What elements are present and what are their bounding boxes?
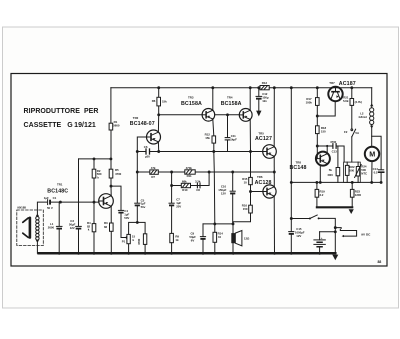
resistor R18 150 xyxy=(316,116,327,146)
svg-text:BC158A: BC158A xyxy=(181,101,202,107)
transistor TR6 AC128 xyxy=(255,175,277,198)
svg-text:R6: R6 xyxy=(152,99,156,103)
wire TR3 to TR4 base xyxy=(215,114,240,116)
label C9 50uF 6V xyxy=(189,231,196,242)
capacitor C15 1000uF 12V xyxy=(289,227,305,253)
resistor R15 (bias) xyxy=(242,177,252,185)
wire coupling row y=151.5 xyxy=(137,151,145,153)
resistor R22 500 xyxy=(345,162,355,182)
transistor TR8 BC148 (bold) xyxy=(290,152,330,171)
wire speaker row y=223.9 xyxy=(203,223,233,225)
svg-text:R11: R11 xyxy=(187,174,192,178)
svg-text:BC158A: BC158A xyxy=(221,101,242,107)
wire motor to rail xyxy=(371,161,373,182)
svg-text:(4.7k): (4.7k) xyxy=(355,100,362,104)
resistor R20 5k xyxy=(328,146,340,182)
ground arrow under R23 xyxy=(349,209,354,214)
svg-text:90/188: 90/188 xyxy=(17,205,26,209)
resistor R10 68k xyxy=(181,180,190,192)
svg-text:5k: 5k xyxy=(329,168,333,172)
wire head coil top to base row xyxy=(37,202,46,214)
node dots on top bus xyxy=(157,86,353,89)
wire C5 column x=137.3 xyxy=(136,152,138,204)
wire switch feed from C15 node xyxy=(291,218,310,220)
svg-text:AC187: AC187 xyxy=(339,81,356,87)
svg-text:9V DC: 9V DC xyxy=(361,232,371,236)
capacitor C5 1uF 50v xyxy=(135,198,146,222)
inductor L2 motor choke xyxy=(358,88,374,147)
capacitor C3 50uF 12V xyxy=(69,159,81,253)
svg-text:15k: 15k xyxy=(162,99,167,103)
wire output column x=214.3 xyxy=(214,152,215,224)
capacitor C13 4700 xyxy=(330,140,337,153)
svg-text:4.8mH: 4.8mH xyxy=(358,115,366,119)
wire BC148 collector to C13 row xyxy=(326,146,328,154)
capacitor C11 1kpF xyxy=(225,115,237,152)
svg-text:TR7: TR7 xyxy=(329,81,335,85)
wire head coil bottom to ground bus xyxy=(37,243,38,254)
wire TR2 base to C5 column xyxy=(137,137,146,152)
svg-text:BC148C: BC148C xyxy=(47,188,68,194)
svg-text:P1: P1 xyxy=(122,240,126,244)
svg-text:R10: R10 xyxy=(182,188,188,192)
resistor R14 xyxy=(213,224,223,253)
node A (C1/C2 junction) xyxy=(59,201,62,204)
wire TR2 collector to TR3 base xyxy=(159,114,203,116)
svg-text:R13: R13 xyxy=(262,81,268,85)
svg-text:TR3: TR3 xyxy=(188,96,194,100)
svg-text:50v: 50v xyxy=(141,205,146,209)
wire C1 to TR1 base xyxy=(51,201,99,203)
wire C13 row y=146 xyxy=(317,145,332,147)
svg-text:CASSETTE G 19/121: CASSETTE G 19/121 xyxy=(24,122,96,129)
wire bottom ground bus xyxy=(39,252,336,255)
motor M (bold) xyxy=(365,147,379,161)
capacitor C8 3.3k (series) xyxy=(195,180,201,193)
potentiometer P1 box xyxy=(122,221,147,253)
svg-text:25V: 25V xyxy=(176,204,181,208)
svg-text:0.1: 0.1 xyxy=(374,170,378,174)
resistor R17 100k xyxy=(306,88,320,116)
capacitor C6 (series in row) xyxy=(144,145,150,159)
svg-text:47k: 47k xyxy=(151,166,156,170)
thermistor R24 500 NTC xyxy=(355,162,368,182)
wire switch to jack column xyxy=(319,218,336,253)
wire row y=172 xyxy=(137,171,274,173)
capacitor C7 1uF 25V xyxy=(169,198,181,234)
capacitor C12 100uF (bus decoupling w/ arrow) xyxy=(256,88,269,117)
svg-text:M: M xyxy=(369,150,375,159)
resistor R5 4700 xyxy=(109,168,121,178)
node dots on bottom bus xyxy=(58,252,321,255)
wire AC127 emitter to AC128 collector xyxy=(273,156,275,187)
svg-text:1µF: 1µF xyxy=(44,196,49,200)
svg-text:12V: 12V xyxy=(70,226,75,230)
wire TR2 emitter down xyxy=(157,142,159,152)
wire AC128 emitter to ground bus xyxy=(273,196,275,253)
transistor TR1 BC148C xyxy=(47,183,113,209)
wire AC187 emitter to node xyxy=(317,101,335,116)
switch S1 xyxy=(309,215,320,220)
svg-text:TR1: TR1 xyxy=(57,183,63,187)
capacitor C10 150uF 12V xyxy=(218,172,235,224)
svg-text:4700: 4700 xyxy=(330,140,337,144)
svg-text:BC148-07: BC148-07 xyxy=(130,121,155,127)
battery 9V xyxy=(314,232,335,254)
wire TR1 collector chain x=111 xyxy=(110,130,112,196)
resistor R3 (TR1 emitter) xyxy=(104,206,113,253)
resistor R2 560k xyxy=(92,159,102,202)
svg-text:50V: 50V xyxy=(124,216,129,220)
transistor TR3 BC158A xyxy=(181,96,215,121)
svg-text:12V: 12V xyxy=(221,191,226,195)
svg-text:500: 500 xyxy=(349,169,354,173)
svg-text:3.3k: 3.3k xyxy=(195,180,201,184)
wire C7/R9 column x=171.6 xyxy=(171,172,173,203)
svg-text:150: 150 xyxy=(321,129,326,133)
wire 68k/C8 branch xyxy=(172,172,210,186)
capacitor C14 0.1 xyxy=(372,136,384,184)
svg-text:4700: 4700 xyxy=(115,172,122,176)
svg-text:R7: R7 xyxy=(151,175,155,179)
svg-text:TR4: TR4 xyxy=(227,96,233,100)
wire bold ground segment xyxy=(317,206,352,208)
wire TR3 top stub to bus xyxy=(212,88,214,111)
svg-text:C8: C8 xyxy=(196,188,200,192)
resistor R13 (series in top bus) xyxy=(260,81,269,90)
svg-text:AC128: AC128 xyxy=(255,180,272,186)
svg-text:NTC: NTC xyxy=(361,171,368,175)
box R22/NTC xyxy=(344,162,361,182)
svg-text:12Ω: 12Ω xyxy=(244,237,250,241)
wire AC127 collector to bus xyxy=(273,88,275,147)
resistor R4 82k xyxy=(87,202,96,253)
svg-text:C1: C1 xyxy=(53,196,57,200)
schematic border frame xyxy=(11,74,387,267)
inductor L1 head coil xyxy=(36,213,39,243)
capacitor C2 (to ground) xyxy=(48,202,62,253)
svg-text:5600: 5600 xyxy=(113,124,120,128)
fuse F2 5A xyxy=(344,105,360,162)
svg-text:4700: 4700 xyxy=(137,238,141,245)
capacitor C1 (series) xyxy=(44,196,57,210)
tape head symbol xyxy=(23,218,30,238)
jack 9V DC xyxy=(335,228,371,238)
tape head box (dashed) xyxy=(17,210,44,246)
svg-text:2.2: 2.2 xyxy=(320,193,324,197)
svg-text:C6: C6 xyxy=(144,145,148,149)
svg-text:88: 88 xyxy=(378,260,382,264)
svg-text:BC148: BC148 xyxy=(290,165,307,171)
svg-text:R20: R20 xyxy=(328,173,334,177)
wire R18 to BC148 base xyxy=(316,146,317,159)
wire top supply bus xyxy=(111,87,372,89)
svg-text:TR5: TR5 xyxy=(258,131,264,135)
wire R15 to AC128 base node xyxy=(251,185,263,192)
svg-text:1k: 1k xyxy=(175,238,179,242)
svg-text:TR8: TR8 xyxy=(296,160,302,164)
svg-text:15k: 15k xyxy=(205,136,210,140)
title text xyxy=(24,108,99,129)
capacitor C9 (electrolytic to ground) xyxy=(200,224,205,253)
svg-text:470k: 470k xyxy=(186,166,193,170)
transistor TR2 BC148-07 xyxy=(130,116,161,144)
svg-text:12V: 12V xyxy=(296,234,301,238)
svg-text:82: 82 xyxy=(104,225,108,229)
svg-text:TR6: TR6 xyxy=(257,175,263,179)
resistor R21 5.6k xyxy=(343,88,362,106)
svg-text:2000: 2000 xyxy=(48,226,55,230)
resistor R7 47k (series in row) xyxy=(150,166,159,179)
speaker xyxy=(231,224,250,253)
resistor R9 1k xyxy=(170,233,180,253)
wire feedback row to R2 top xyxy=(79,158,111,160)
svg-text:12v: 12v xyxy=(262,99,267,103)
svg-text:1200: 1200 xyxy=(355,193,362,197)
svg-text:6V: 6V xyxy=(191,238,195,242)
svg-text:50 V: 50 V xyxy=(47,206,53,210)
wire TR4 top stub to bus xyxy=(249,88,251,111)
wire TR4 bottom chain x=250.5 xyxy=(249,119,251,177)
wire emitter rail y=182.4 xyxy=(291,181,381,183)
resistor R23 1200 xyxy=(350,182,361,207)
svg-text:+: + xyxy=(321,236,323,240)
svg-text:5.6k: 5.6k xyxy=(343,99,349,103)
svg-text:150: 150 xyxy=(243,207,248,211)
svg-text:TR2: TR2 xyxy=(133,116,139,120)
transistor TR5 AC127 xyxy=(255,131,276,158)
wire supply drop x=291.3 xyxy=(290,88,292,232)
svg-text:1kpF: 1kpF xyxy=(230,138,237,142)
svg-text:RIPRODUTTORE PER: RIPRODUTTORE PER xyxy=(24,108,99,115)
svg-text:10: 10 xyxy=(244,180,248,184)
resistor R19 2.2 xyxy=(315,182,325,207)
transistor TR4 BC158A xyxy=(221,96,252,122)
svg-text:68k: 68k xyxy=(182,180,187,184)
svg-text:F2: F2 xyxy=(344,130,348,134)
svg-text:100k: 100k xyxy=(306,101,313,105)
resistor R11 470k (series in row) xyxy=(185,166,195,178)
ground arrow at bus end xyxy=(332,255,338,261)
resistor R6 (TR2 collector load) xyxy=(152,88,167,132)
resistor R12 15k (TR3 emitter) xyxy=(205,119,216,152)
svg-text:µ50: µ50 xyxy=(145,155,150,159)
wire BC148 emitter to rail xyxy=(319,166,321,183)
svg-text:10: 10 xyxy=(218,235,222,239)
capacitor C4 1uF 50V xyxy=(111,186,129,239)
resistor R16 xyxy=(242,192,253,214)
svg-text:C13: C13 xyxy=(332,149,338,153)
wire R16 to speaker node xyxy=(233,213,250,224)
transistor TR7 AC187 (bold) xyxy=(328,81,356,101)
resistor R1 5600 xyxy=(109,88,120,130)
svg-text:AC127: AC127 xyxy=(255,136,272,142)
